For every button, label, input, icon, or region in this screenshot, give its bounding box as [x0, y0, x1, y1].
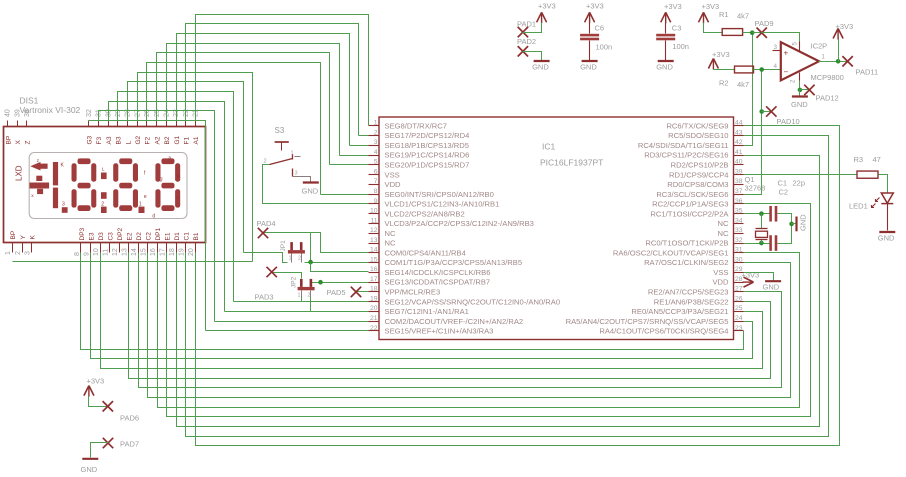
svg-text:1: 1 — [298, 293, 301, 299]
svg-text:D1: D1 — [174, 232, 181, 241]
wire C6 to ground — [589, 41, 591, 61]
svg-text:B1: B1 — [193, 232, 200, 240]
svg-text:RD1/CPS9/CCP4: RD1/CPS9/CCP4 — [669, 170, 729, 179]
svg-text:42: 42 — [735, 139, 743, 146]
svg-text:1: 1 — [291, 151, 294, 157]
wire JP1 pin2 junction to IC pin 15 — [305, 262, 369, 264]
ground VSS — [763, 281, 782, 291]
svg-text:10: 10 — [370, 208, 378, 215]
ground C6 — [580, 61, 598, 72]
svg-text:Z: Z — [25, 141, 32, 145]
wire row 19 to IC pin 19 — [234, 301, 369, 303]
wire row 22 to IC pin 22 — [206, 330, 369, 332]
svg-text:+3V3: +3V3 — [538, 2, 556, 11]
svg-text:3: 3 — [295, 171, 298, 177]
capacitor C2 — [769, 235, 777, 251]
svg-text:GND: GND — [580, 63, 597, 72]
wire display pin 31 to x=214.7 — [99, 111, 215, 322]
svg-text:D2: D2 — [136, 232, 143, 241]
svg-text:VLCD2/CPS2/AN8/RB2: VLCD2/CPS2/AN8/RB2 — [385, 209, 465, 218]
display glass outline — [29, 153, 187, 219]
capacitor C1 — [769, 179, 805, 222]
wire R3 to LED1 — [879, 175, 888, 193]
svg-text:JP2: JP2 — [291, 276, 298, 288]
wire PAD3 to JP2 left pin — [272, 273, 302, 279]
svg-text:RE1/AN6/P3B/SEG22: RE1/AN6/P3B/SEG22 — [654, 297, 729, 306]
svg-text:+3V3: +3V3 — [586, 2, 604, 11]
wire display pin 22 to x=359.0 — [186, 24, 359, 136]
svg-text:+3V3: +3V3 — [836, 22, 854, 31]
wire IC pin 35 to C1 — [744, 213, 770, 215]
wire display pin 21 to x=368.7 — [196, 15, 369, 126]
svg-text:PAD11: PAD11 — [856, 68, 879, 77]
wire JP2 right to junction to IC pin 17 — [311, 282, 369, 284]
svg-text:NC: NC — [385, 229, 396, 238]
svg-text:47: 47 — [873, 155, 881, 164]
display digit 1 — [53, 162, 65, 208]
svg-text:5: 5 — [374, 159, 378, 166]
svg-text:VPP/MCLR/RE3: VPP/MCLR/RE3 — [385, 287, 441, 296]
svg-text:+3V3: +3V3 — [712, 50, 730, 59]
svg-text:PAD12: PAD12 — [816, 94, 839, 103]
svg-text:41: 41 — [735, 149, 743, 156]
display LXD label — [15, 165, 24, 181]
svg-text:C1: C1 — [183, 232, 190, 241]
wire into IC pin 5 — [330, 164, 369, 166]
svg-text:2: 2 — [308, 293, 311, 299]
IC1 value PIC16LF1937PT — [540, 158, 603, 168]
wire into IC pin 4 — [340, 155, 369, 157]
wire junction down to IC pin 16 — [311, 263, 369, 272]
svg-text:SEG8/DT/RX/RC7: SEG8/DT/RX/RC7 — [385, 121, 447, 130]
wire op-amp output to PAD11 — [819, 61, 848, 63]
svg-text:2: 2 — [264, 159, 267, 165]
op-amp IC2P triangle — [781, 42, 819, 80]
svg-text:36: 36 — [735, 198, 743, 205]
svg-text:SEG18/P1B/CPS13/RD5: SEG18/P1B/CPS13/RD5 — [385, 141, 469, 150]
svg-text:26: 26 — [735, 295, 743, 302]
pad PAD4 — [257, 219, 276, 238]
wire display pin 24 to x=339.5 — [167, 44, 340, 156]
wire LED1 to ground — [887, 204, 889, 231]
switch S3 arm — [270, 155, 293, 165]
wire display pin 29 to x=233.2 — [118, 92, 234, 302]
op-amp name IC2P — [811, 42, 828, 51]
wire display pin 17 to IC pin 36 (bottom wrap) — [167, 204, 811, 417]
svg-text:SEG15/VREF+/C1IN+/AN3/RA3: SEG15/VREF+/C1IN+/AN3/RA3 — [385, 327, 494, 336]
svg-text:A3: A3 — [106, 136, 113, 144]
svg-text:e: e — [144, 194, 147, 200]
wire row14 segment to JP1 — [244, 253, 288, 263]
svg-text:F2: F2 — [145, 137, 152, 145]
svg-text:VSS: VSS — [385, 170, 400, 179]
svg-text:17: 17 — [370, 276, 378, 283]
wire row 20 to IC pin 20 — [225, 311, 369, 313]
wire +3V3 to PAD6 — [89, 397, 108, 407]
power +3V3 at R2 — [708, 50, 729, 69]
svg-text:11: 11 — [370, 217, 377, 224]
svg-text:RD0/CPS8/COM3: RD0/CPS8/COM3 — [667, 180, 728, 189]
display digit 8 (second) — [113, 158, 138, 211]
capacitor C3 — [656, 23, 689, 51]
svg-text:R3: R3 — [854, 155, 864, 164]
display decimal points — [62, 202, 145, 214]
wire IC pin 39 to R3 — [744, 174, 857, 176]
svg-text:PAD9: PAD9 — [755, 19, 774, 28]
svg-text:B2: B2 — [164, 136, 171, 144]
wire display pin 10 to IC pin 25 (bottom wrap) — [101, 253, 763, 369]
IC1 right pins 23-44 — [566, 120, 744, 336]
svg-text:R2: R2 — [719, 79, 729, 88]
svg-text:G1: G1 — [174, 135, 181, 144]
svg-text:GND: GND — [656, 63, 673, 72]
wire display pin 16 to IC pin 31 (bottom wrap) — [158, 253, 800, 408]
svg-text:RC2/CCP1/P1A/SEG3: RC2/CCP1/P1A/SEG3 — [652, 200, 728, 209]
wire PAD4 branch down to junction — [310, 233, 312, 263]
svg-text:SEG19/P1C/CPS14/RD6: SEG19/P1C/CPS14/RD6 — [385, 151, 470, 160]
resistor R2 — [719, 66, 754, 89]
pad PAD1 — [517, 20, 536, 38]
svg-text:+3V3: +3V3 — [87, 377, 105, 386]
svg-text:C3: C3 — [672, 24, 682, 33]
wire S3 pin2 to IC pin 9 — [263, 165, 369, 204]
svg-text:C2: C2 — [145, 232, 152, 241]
power +3V3 at C6 — [585, 2, 604, 24]
svg-text:DIS1: DIS1 — [20, 96, 39, 106]
svg-text:RD3/CPS11/P2C/SEG16: RD3/CPS11/P2C/SEG16 — [644, 151, 728, 160]
svg-text:RA5/AN4/C2OUT/CPS7/SRNQ/SS/VCA: RA5/AN4/C2OUT/CPS7/SRNQ/SS/VCAP/SEG5 — [566, 317, 729, 326]
wire display pin 30 to x=224.8 — [109, 102, 225, 312]
svg-text:RA7/OSC1/CLKIN/SEG2: RA7/OSC1/CLKIN/SEG2 — [644, 258, 728, 267]
ground LED1 — [878, 232, 896, 243]
svg-text:L: L — [102, 167, 105, 173]
op-amp pin5 stub — [792, 42, 799, 52]
power +3V3 at R1 — [699, 2, 720, 24]
LED LED1 — [849, 193, 893, 211]
wire BP display pin1 to pin27 drop — [13, 261, 253, 263]
wire into IC pin 3 — [350, 145, 369, 147]
svg-text:VDD: VDD — [385, 180, 402, 189]
ground S3 — [302, 183, 319, 196]
svg-text:40: 40 — [5, 109, 12, 117]
svg-text:VLCD1/CPS1/C12IN3-/AN10/RB1: VLCD1/CPS1/C12IN3-/AN10/RB1 — [385, 200, 500, 209]
svg-text:PAD1: PAD1 — [517, 20, 536, 29]
svg-text:2: 2 — [298, 256, 301, 262]
svg-text:44: 44 — [735, 120, 743, 127]
svg-text:A1: A1 — [193, 136, 200, 144]
svg-text:a: a — [168, 156, 171, 162]
svg-text:LXD: LXD — [15, 165, 24, 181]
svg-text:20: 20 — [188, 248, 195, 256]
svg-text:GND: GND — [878, 234, 895, 243]
junction dot crystal top — [759, 211, 764, 216]
wire JP2 pin2 to row 20 — [310, 297, 312, 312]
ground op-amp — [791, 90, 808, 110]
svg-text:PAD7: PAD7 — [120, 440, 139, 449]
power +3V3 at C3 — [661, 2, 682, 24]
svg-text:21: 21 — [370, 315, 378, 322]
wire PAD1 to +3V3 — [523, 23, 542, 33]
wire IC pin 42 SDA up to PAD9 junction — [744, 33, 753, 146]
svg-text:VLCD3/P2A/CCP2/CPS3/C12IN2-/AN: VLCD3/P2A/CCP2/CPS3/C12IN2-/AN9/RB3 — [385, 219, 534, 228]
wire display pin 27 to x=253.0 — [138, 73, 253, 262]
svg-text:32768: 32768 — [745, 184, 766, 193]
switch S3 name — [275, 126, 285, 135]
svg-text:PAD2: PAD2 — [517, 37, 536, 46]
op-amp plus minus — [784, 49, 789, 77]
svg-text:SEG12/VCAP/SS/SRNQ/C2OUT/C12IN: SEG12/VCAP/SS/SRNQ/C2OUT/C12IN0-/AN0/RA0 — [385, 297, 561, 306]
svg-text:14: 14 — [370, 247, 378, 254]
svg-text:GND: GND — [532, 63, 549, 72]
svg-text:18: 18 — [370, 286, 378, 293]
svg-text:RA6/OSC2/CLKOUT/VCAP/SEG1: RA6/OSC2/CLKOUT/VCAP/SEG1 — [613, 248, 729, 257]
IC1 left pins 1-22 — [369, 120, 561, 336]
display digit 8 (first) — [72, 158, 97, 211]
solder jumper JP2 — [291, 276, 315, 298]
svg-text:19: 19 — [178, 248, 185, 256]
power +3V3 at PAD6 — [84, 377, 104, 397]
svg-text:VSS: VSS — [713, 268, 728, 277]
pad PAD11 — [842, 56, 878, 76]
junction dot PAD10 — [759, 109, 764, 114]
pad PAD6 — [103, 401, 139, 422]
pad PAD12 — [800, 85, 839, 103]
switch S3 pin2 label — [264, 159, 267, 165]
svg-text:E2: E2 — [126, 232, 133, 240]
svg-text:A2: A2 — [154, 136, 161, 144]
svg-text:2: 2 — [374, 129, 378, 136]
svg-text:24: 24 — [735, 315, 743, 322]
svg-text:R1: R1 — [719, 10, 729, 19]
svg-text:16: 16 — [150, 248, 157, 256]
svg-text:GND: GND — [763, 283, 780, 292]
svg-text:SEG0/INT/SRI/CPS0/AN12/RB0: SEG0/INT/SRI/CPS0/AN12/RB0 — [385, 190, 494, 199]
wire op-amp pin2 to ground — [799, 81, 801, 90]
svg-text:COM2/DACOUT/VREF-/C2IN+/AN2/RA: COM2/DACOUT/VREF-/C2IN+/AN2/RA2 — [385, 317, 524, 326]
svg-text:COM1/T1G/P3A/CCP3/CPS5/AN13/RB: COM1/T1G/P3A/CCP3/CPS5/AN13/RB5 — [385, 258, 523, 267]
svg-text:RC3/SCL/SCK/SEG6: RC3/SCL/SCK/SEG6 — [656, 190, 728, 199]
crystal Q1 — [745, 175, 768, 244]
junction dot JP1/PAD4/pin15 — [308, 260, 313, 265]
ground crystal (rotated) — [792, 214, 808, 232]
svg-text:SEG7/C12IN1-/AN1/RA1: SEG7/C12IN1-/AN1/RA1 — [385, 307, 469, 316]
svg-text:12: 12 — [112, 248, 119, 256]
switch S3 actuator — [275, 142, 289, 151]
wire PAD5 to IC pin 18 — [357, 291, 369, 293]
IC1 box — [379, 117, 734, 340]
op-amp pin2 stub — [791, 73, 800, 84]
svg-text:VDD: VDD — [712, 278, 729, 287]
svg-text:SEG13/ICDDAT/ICSPDAT/RB7: SEG13/ICDDAT/ICSPDAT/RB7 — [385, 278, 491, 287]
wire PAD9 to op-amp pin5 — [762, 33, 800, 52]
ground PAD2 — [532, 61, 550, 72]
junction dot op-amp pin4 — [759, 67, 764, 72]
wire C1 C2 right join — [778, 214, 792, 244]
svg-text:10: 10 — [93, 248, 100, 256]
display top-left labels BP X Z — [5, 136, 31, 145]
display pins 40 39 38 (stubs) — [5, 109, 31, 126]
wire +3V3 to R1 — [704, 23, 723, 33]
pad PAD3 — [255, 267, 277, 302]
pad PAD2 — [517, 37, 536, 57]
svg-text:16: 16 — [370, 266, 378, 273]
svg-text:NC: NC — [718, 219, 729, 228]
ground PAD7 — [81, 459, 99, 474]
svg-text:30: 30 — [735, 256, 743, 263]
svg-text:RA4/C1OUT/CPS6/T0CKI/SRQ/SEG4: RA4/C1OUT/CPS6/T0CKI/SRQ/SEG4 — [599, 327, 728, 336]
svg-text:C1: C1 — [778, 179, 788, 188]
pad PAD5 — [327, 287, 362, 297]
wire display pin 23 to x=349.3 — [177, 34, 350, 146]
wire display pin 13 to IC pin 26 (bottom wrap) — [129, 253, 771, 379]
display name DIS1 — [20, 96, 39, 106]
svg-text:+3V3: +3V3 — [664, 2, 682, 11]
LCD display DIS1 outline — [4, 127, 206, 243]
svg-text:4k7: 4k7 — [737, 12, 749, 21]
display bottom pins 8-20 stubs numbers labels — [74, 227, 200, 256]
svg-text:9: 9 — [374, 198, 378, 205]
svg-text:RD2/CPS10/P2B: RD2/CPS10/P2B — [671, 160, 729, 169]
wire R1 to PAD9 junction — [743, 32, 753, 34]
svg-text:9: 9 — [83, 252, 90, 256]
svg-text:32: 32 — [86, 109, 93, 117]
wire IC pin 32 to C2 — [744, 243, 770, 245]
svg-text:NC: NC — [385, 239, 396, 248]
switch S3 pin1 stub — [291, 151, 301, 157]
resistor R1 — [719, 10, 749, 35]
svg-text:1: 1 — [374, 120, 378, 127]
svg-text:3: 3 — [24, 251, 31, 255]
wire PAD2 to ground — [523, 52, 542, 61]
svg-text:RE0/AN5/CCP3/P3A/SEG21: RE0/AN5/CCP3/P3A/SEG21 — [631, 307, 728, 316]
svg-text:1: 1 — [139, 202, 142, 208]
svg-text:GND: GND — [791, 100, 808, 109]
wire IC pin 29 VSS to ground — [744, 273, 774, 281]
power +3V3 at PAD11 — [833, 22, 853, 62]
switch S3 pin3 — [293, 169, 298, 177]
svg-text:17: 17 — [159, 248, 166, 256]
op-amp value MCP9800 — [811, 73, 844, 82]
svg-text:D3: D3 — [98, 232, 105, 241]
svg-text:L: L — [125, 141, 132, 145]
svg-text:3: 3 — [374, 139, 378, 146]
wire display pin 25 to x=329.8 — [157, 53, 330, 165]
display colon — [101, 167, 107, 199]
svg-text:E1: E1 — [164, 232, 171, 240]
svg-text:BP: BP — [10, 231, 17, 240]
display digit 8 (third) — [155, 158, 180, 211]
display bottom pins 1 2 3 stubs — [5, 231, 36, 255]
svg-text:22: 22 — [370, 325, 378, 332]
wire C3 to ground — [665, 41, 667, 61]
svg-text:27: 27 — [735, 286, 743, 293]
wire display pin 14 to IC pin 27 (bottom wrap) — [139, 253, 782, 388]
svg-text:15: 15 — [370, 256, 378, 263]
svg-text:X: X — [15, 140, 22, 145]
svg-text:d: d — [152, 214, 155, 220]
svg-text:RC0/T1OSO/T1CKI/P2B: RC0/T1OSO/T1CKI/P2B — [645, 239, 728, 248]
svg-text:IC2P: IC2P — [811, 42, 828, 51]
capacitor C6 — [580, 23, 612, 52]
wire IC pin 37 SCL up to pin4 junction — [744, 70, 762, 195]
svg-text:g: g — [160, 177, 163, 183]
wire R2 to op-amp pin4 — [754, 69, 781, 71]
svg-text:35: 35 — [735, 208, 743, 215]
svg-text:34: 34 — [735, 217, 743, 224]
display top pins 21-32 stubs numbers labels — [86, 109, 200, 144]
wire PAD4 to row14 feed — [263, 233, 369, 253]
wire display pin 9 to IC pin 24 (bottom wrap) — [91, 253, 753, 359]
svg-text:4: 4 — [374, 149, 378, 156]
svg-text:43: 43 — [735, 129, 743, 136]
power +3V3 at PAD1 — [537, 2, 556, 24]
wire display pin 20 to IC pin 44 (bottom wrap) — [196, 126, 840, 446]
svg-text:6: 6 — [374, 168, 378, 175]
junction dot PAD9 — [750, 30, 755, 35]
svg-text:IC1: IC1 — [542, 142, 556, 152]
svg-text:11: 11 — [102, 249, 109, 256]
svg-text:DP3: DP3 — [79, 227, 86, 240]
svg-text:+: + — [784, 49, 789, 58]
svg-text:RC6/TX/CK/SEG9: RC6/TX/CK/SEG9 — [666, 121, 728, 130]
svg-text:−: − — [784, 68, 789, 77]
svg-text:S3: S3 — [275, 126, 285, 135]
svg-text:22p: 22p — [793, 179, 806, 188]
svg-text:COM0/CPS4/AN11/RB4: COM0/CPS4/AN11/RB4 — [385, 248, 466, 257]
svg-text:4k7: 4k7 — [737, 80, 749, 89]
svg-text:8: 8 — [74, 252, 81, 256]
wire into IC pin 2 — [359, 135, 369, 137]
svg-text:F3: F3 — [96, 137, 103, 145]
wire display pin 26 to x=320.1 — [147, 63, 321, 195]
svg-text:2: 2 — [101, 202, 104, 208]
svg-text:PAD4: PAD4 — [257, 219, 276, 228]
svg-text:+3V3: +3V3 — [702, 2, 720, 11]
svg-text:SEG17/P2D/CPS12/RD4: SEG17/P2D/CPS12/RD4 — [385, 131, 470, 140]
svg-text:RC4/SDI/SDA/T1G/SEG11: RC4/SDI/SDA/T1G/SEG11 — [638, 141, 729, 150]
svg-text:1: 1 — [289, 256, 292, 262]
svg-text:31: 31 — [735, 247, 743, 254]
svg-text:BP: BP — [5, 136, 12, 145]
pad PAD10 — [762, 106, 800, 126]
svg-text:K: K — [29, 235, 36, 240]
svg-text:38: 38 — [24, 109, 31, 117]
svg-text:3: 3 — [62, 202, 65, 208]
wire JP2 pin1 to row 19 — [301, 297, 303, 302]
svg-text:15: 15 — [140, 248, 147, 256]
svg-text:PIC16LF1937PT: PIC16LF1937PT — [540, 158, 603, 168]
svg-text:23: 23 — [735, 325, 743, 332]
svg-text:C2: C2 — [779, 188, 789, 197]
wire display pin 28 to x=243.5 — [128, 82, 244, 253]
svg-text:8: 8 — [374, 188, 378, 195]
junction dot crystal bottom — [759, 241, 764, 246]
svg-text:DP1: DP1 — [155, 227, 162, 240]
svg-text:PAD6: PAD6 — [120, 414, 139, 423]
svg-text:40: 40 — [735, 159, 743, 166]
wire PAD7 to ground — [91, 443, 109, 458]
wire display pin 15 to IC pin 30 (bottom wrap) — [148, 253, 791, 398]
svg-text:37: 37 — [735, 188, 743, 195]
svg-text:RC1/T1OSI/CCP2/P2A: RC1/T1OSI/CCP2/P2A — [650, 209, 729, 218]
wire display pin 19 to IC pin 43 (bottom wrap) — [186, 136, 829, 437]
junction dot PAD12 — [798, 88, 803, 93]
svg-text:2: 2 — [15, 251, 22, 255]
svg-text:33: 33 — [735, 227, 743, 234]
ground C3 — [656, 61, 674, 72]
svg-text:b: b — [177, 174, 180, 180]
svg-text:14: 14 — [131, 248, 138, 256]
